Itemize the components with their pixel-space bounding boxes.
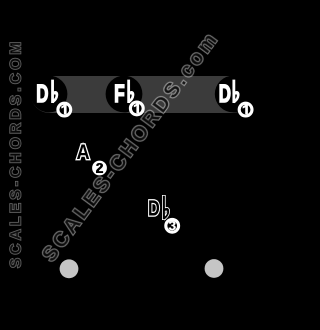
- note disc Fb string4: [106, 76, 143, 113]
- svg-text:D: D: [148, 196, 160, 221]
- note label Db (finger3 position): [148, 196, 169, 221]
- open-string dot left: [60, 259, 79, 278]
- note disc Db string6: [31, 76, 68, 113]
- label Db on disc string6: [36, 80, 58, 108]
- svg-text:D: D: [36, 80, 48, 108]
- finger badge 3: [166, 219, 179, 232]
- finger badge 1 on disc string1: [239, 103, 252, 116]
- open-string dot right: [205, 259, 224, 278]
- note label A (finger2 position): [77, 141, 90, 164]
- finger badge 1 on disc string6: [58, 103, 71, 116]
- note disc Db string1: [215, 76, 252, 113]
- svg-text:D: D: [219, 80, 231, 108]
- finger badge 2: [92, 161, 107, 176]
- svg-text:SCALES-CHORDS.COM: SCALES-CHORDS.COM: [8, 38, 25, 268]
- barre bar fret1: [31, 76, 251, 113]
- svg-text:F: F: [114, 80, 125, 108]
- label Fb on disc string4: [114, 80, 134, 108]
- finger badge 1 on disc string4: [130, 102, 143, 115]
- svg-text:A: A: [77, 141, 90, 164]
- label Db on disc string1: [219, 80, 240, 108]
